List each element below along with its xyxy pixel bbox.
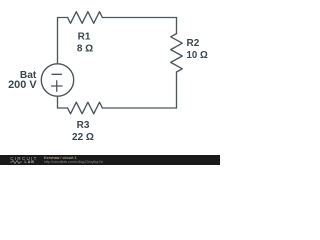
wire bottom-left horizontal <box>58 107 68 109</box>
wire right vertical lower <box>176 72 178 108</box>
wire bottom-left vertical <box>57 96 59 108</box>
svg-text:R1: R1 <box>78 31 91 42</box>
resistor R3 <box>68 102 103 114</box>
resistor R2 <box>171 34 183 72</box>
wire top-right horizontal <box>102 17 176 19</box>
svg-text:22 Ω: 22 Ω <box>72 132 94 143</box>
CircuitLab logo <box>10 156 37 161</box>
resistor R1 <box>68 12 103 24</box>
footer bar <box>0 155 220 165</box>
svg-text:R2: R2 <box>187 38 200 49</box>
footer title text <box>44 156 77 160</box>
voltage source Bat circle <box>41 64 73 96</box>
svg-text:200 V: 200 V <box>8 79 37 91</box>
minus sign of Bat <box>52 73 62 75</box>
svg-text:8 Ω: 8 Ω <box>77 43 93 54</box>
wire right vertical upper <box>176 18 178 34</box>
footer url text <box>44 160 103 164</box>
wire top-left horizontal <box>58 17 68 19</box>
svg-text:R3: R3 <box>77 120 90 131</box>
svg-text:10 Ω: 10 Ω <box>187 50 208 61</box>
wire top-left vertical <box>57 18 59 64</box>
wire bottom-right horizontal <box>102 107 176 109</box>
plus sign of Bat <box>52 81 63 91</box>
